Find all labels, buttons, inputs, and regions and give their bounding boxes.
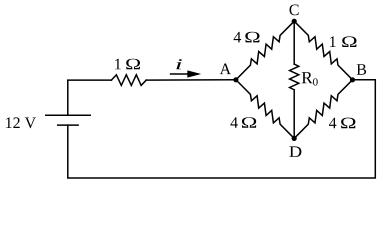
label 4 ohm (A-C): 4: [234, 32, 242, 43]
wire: battery positive up to top-left corner, right to 1-ohm resistor: [68, 80, 112, 115]
label 1 ohm (C-B): omega: [342, 36, 356, 47]
node B: [350, 77, 355, 82]
label node B text: [357, 64, 366, 75]
wire: node C down to R0: [293, 21, 295, 64]
wire: 1-ohm resistor to node A: [146, 79, 236, 81]
battery 12V short plate: [58, 124, 78, 126]
resistor 4 ohm (A to C): [236, 21, 294, 80]
resistor R0 (vertical): [290, 64, 299, 90]
resistor 4 ohm (D to B): [294, 80, 352, 139]
label 1 ohm top: 1: [115, 59, 121, 70]
resistor 4 ohm (A to D): [236, 80, 294, 139]
label node D text: [289, 146, 301, 157]
resistor 1 ohm (C to B): [294, 21, 352, 80]
node D: [292, 136, 297, 141]
wire: battery negative down, bottom run, right side up to node B: [68, 80, 376, 178]
label 4 ohm (D-B): 4: [329, 118, 336, 129]
current arrow i head: [187, 70, 201, 77]
battery 12V long plate: [46, 114, 90, 116]
label 4 ohm (A-C): omega: [245, 32, 259, 43]
label 1 ohm (C-B): 1: [330, 36, 336, 47]
label node A text: [220, 64, 231, 75]
label 4 ohm (A-D): omega: [242, 117, 256, 128]
wire: R0 down to node D: [293, 90, 295, 139]
label 4 ohm (A-D): 4: [230, 117, 237, 128]
label R0: R: [302, 72, 313, 83]
label 4 ohm (D-B): omega: [341, 118, 355, 129]
node C: [292, 19, 297, 24]
label node C text: [290, 5, 299, 16]
resistor 1 ohm (top horizontal): [111, 75, 146, 86]
label 1 ohm top: omega: [126, 59, 140, 70]
current arrow i tail: [171, 73, 189, 75]
label current i: [176, 59, 182, 69]
node A: [233, 77, 238, 82]
label R0: subscript 0: [313, 78, 318, 85]
label 12 V: [6, 117, 36, 128]
